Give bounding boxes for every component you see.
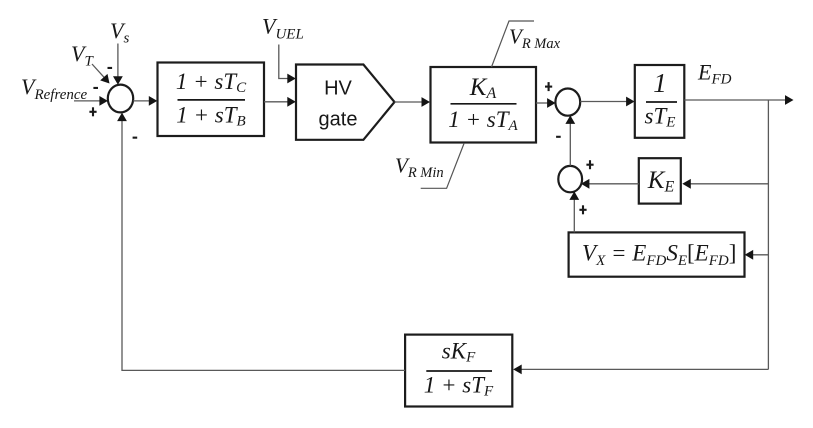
summing junction S1	[108, 85, 133, 113]
sign minus S3 to S2	[556, 136, 561, 138]
wire Vs into S1	[113, 44, 123, 85]
wire S1 to lead-lag block	[133, 96, 157, 106]
wire KA to S2	[536, 98, 556, 108]
sign plus for VRefrence	[89, 107, 96, 116]
sign plus for KA into S2	[545, 82, 552, 91]
wire EFD output	[684, 95, 793, 105]
sign minus for VT	[93, 87, 98, 89]
wire feedback from bus to sKF block	[513, 365, 768, 375]
wire right vertical bus	[767, 100, 769, 369]
svg-text:1: 1	[653, 68, 667, 98]
svg-text:1 + sTB: 1 + sTB	[176, 103, 245, 130]
sign minus for feedback into S1	[133, 137, 138, 139]
svg-text:gate: gate	[319, 109, 358, 131]
limit VR Max annotation	[492, 21, 561, 67]
wire bus to KE	[682, 179, 768, 189]
wire VX to S3	[569, 191, 579, 232]
svg-text:1 + sTA: 1 + sTA	[448, 107, 518, 134]
wire S2 to 1/sTE block	[580, 97, 634, 107]
svg-text:1 + sTF: 1 + sTF	[424, 373, 494, 400]
sign plus for KE into S3	[586, 160, 593, 169]
block KA/(1+sTA)	[431, 67, 537, 143]
summing junction S2	[555, 89, 580, 116]
wire VRefrence into S1	[74, 96, 108, 106]
sign minus for Vs	[108, 67, 113, 69]
svg-text:HV: HV	[324, 78, 352, 100]
wire lead-lag to HV gate	[264, 97, 296, 107]
sign plus VX into S3	[579, 205, 586, 214]
wire bus to VX	[745, 250, 769, 260]
block sKF/(1+sTF)	[405, 335, 512, 407]
block KE	[639, 158, 681, 203]
limit VR Min annotation	[395, 143, 464, 188]
wire S3 to S2	[565, 115, 575, 165]
block lead-lag (1+sTC)/(1+sTB)	[158, 63, 265, 137]
wire sKF output back to S1	[117, 113, 405, 371]
wire KE to S3	[581, 179, 639, 189]
wire HV gate to KA block	[395, 97, 431, 107]
block 1/sTE	[635, 65, 685, 138]
HV gate	[296, 65, 395, 140]
summing junction S3	[558, 166, 582, 192]
wire VUEL into HV gate	[279, 45, 296, 84]
wire VT diagonal into S1	[92, 64, 110, 84]
block VX saturation	[569, 232, 745, 276]
